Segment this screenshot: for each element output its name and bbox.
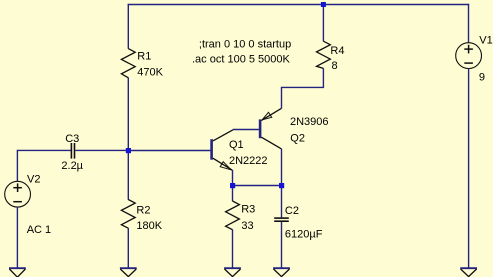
voltage source V1 bbox=[456, 43, 482, 69]
wire Q2 collector down bbox=[281, 149, 283, 186]
svg-text:2.2µ: 2.2µ bbox=[61, 160, 83, 172]
wire top rail bbox=[128, 4, 470, 6]
capacitor C2 bbox=[274, 217, 289, 222]
svg-text:V2: V2 bbox=[27, 174, 40, 186]
wire C2 to ground bbox=[281, 222, 283, 268]
resistor R2 bbox=[121, 200, 135, 229]
ground C2 bbox=[273, 268, 290, 276]
wire node to Q1 base bbox=[128, 150, 210, 152]
resistor R1 bbox=[121, 49, 135, 78]
wire R4 top bbox=[322, 5, 324, 42]
svg-text:;tran 0 10 0 startup: ;tran 0 10 0 startup bbox=[199, 38, 291, 50]
transistor Q2 bbox=[259, 108, 282, 149]
wire Q2 emitter to R4 bbox=[282, 68, 324, 108]
wire emitter junction to C2 junction bbox=[233, 185, 282, 187]
svg-text:180K: 180K bbox=[136, 220, 162, 232]
junction top rail bbox=[321, 2, 326, 7]
wire V1 to ground bbox=[468, 69, 470, 269]
ground R2 bbox=[120, 268, 137, 276]
svg-text:R3: R3 bbox=[241, 204, 255, 216]
wire R1 top stub bbox=[127, 4, 129, 49]
wire node to R2 bbox=[127, 151, 129, 200]
wire Q1 collector to Q2 base bbox=[233, 129, 259, 131]
ground V2 bbox=[9, 268, 26, 277]
voltage source V2 bbox=[5, 181, 31, 207]
svg-text:8: 8 bbox=[332, 60, 338, 72]
svg-text:R4: R4 bbox=[330, 45, 344, 57]
junction C2 top node bbox=[279, 183, 284, 188]
svg-text:Q1: Q1 bbox=[229, 139, 244, 151]
wire R2 to ground bbox=[127, 228, 129, 268]
resistor R4 bbox=[317, 41, 331, 68]
svg-text:R2: R2 bbox=[136, 204, 150, 216]
svg-text:2N2222: 2N2222 bbox=[229, 155, 268, 167]
wire C3 to V2 bbox=[17, 150, 70, 181]
svg-text:C2: C2 bbox=[285, 205, 299, 217]
svg-text:.ac oct 100 5 5000K: .ac oct 100 5 5000K bbox=[192, 54, 291, 66]
svg-text:C3: C3 bbox=[65, 133, 79, 145]
svg-text:Q2: Q2 bbox=[290, 132, 305, 144]
junction Q1 emitter node bbox=[230, 183, 235, 188]
wire R3 to ground bbox=[232, 230, 234, 269]
svg-text:6120µF: 6120µF bbox=[285, 228, 323, 240]
svg-text:R1: R1 bbox=[137, 51, 151, 63]
node A junction bbox=[126, 148, 131, 153]
capacitor C3 bbox=[71, 143, 76, 159]
wire R1 bottom to node bbox=[127, 78, 129, 151]
ground V1 bbox=[460, 268, 477, 276]
wire rail to V1 bbox=[468, 4, 470, 43]
ground R3 bbox=[224, 268, 241, 276]
wire junction to C2 bbox=[281, 186, 283, 218]
resistor R3 bbox=[226, 201, 240, 230]
svg-text:470K: 470K bbox=[137, 67, 163, 79]
svg-text:AC 1: AC 1 bbox=[27, 224, 51, 236]
wire Q1 emitter down bbox=[232, 170, 234, 186]
wire V2 to ground bbox=[16, 207, 18, 268]
transistor Q1 bbox=[210, 130, 233, 170]
wire node to C3 bbox=[75, 149, 128, 151]
svg-text:33: 33 bbox=[241, 220, 253, 232]
svg-text:2N3906: 2N3906 bbox=[290, 116, 329, 128]
wire junction to R3 bbox=[232, 186, 234, 202]
svg-text:V1: V1 bbox=[479, 34, 492, 46]
svg-text:9: 9 bbox=[479, 72, 485, 84]
